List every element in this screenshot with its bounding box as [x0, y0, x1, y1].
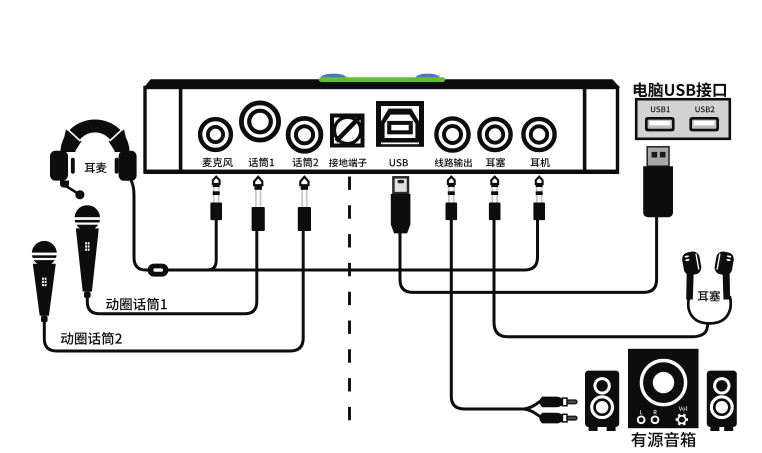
sound card rear panel body [145, 88, 618, 172]
plug for 线路输出 [448, 177, 455, 184]
label 电脑USB接口 [634, 82, 726, 97]
earbud right [714, 250, 735, 276]
dashed divider line [348, 177, 351, 435]
jack 线路输出 (line out) [436, 118, 468, 150]
wire RCA branch upper [524, 400, 543, 410]
label 动圈话筒1 [106, 298, 167, 311]
wire headset cable to remote [131, 180, 150, 270]
label 耳机 [530, 158, 549, 167]
wire line out to RCA split [451, 218, 524, 409]
panel top lid [144, 79, 620, 87]
wire mic1 to 话筒1 plug [87, 229, 256, 314]
label 耳塞 [486, 158, 505, 167]
earbud cable loop [688, 296, 730, 323]
USB1 port [645, 117, 675, 131]
blue indicator dome left [321, 74, 347, 78]
plug for 耳机 [536, 177, 543, 184]
headset right ear cup [119, 151, 137, 181]
label 麦克风 [202, 158, 232, 168]
blue indicator dome right [416, 74, 441, 78]
headset right ear pad bar [115, 158, 119, 174]
label 接地端子 [329, 158, 367, 167]
panel bottom edge [144, 170, 619, 174]
inline remote on headset cable [148, 264, 169, 277]
ground terminal 接地端子 [332, 116, 363, 146]
panel right divider [583, 88, 587, 170]
label USB [390, 159, 408, 166]
label USB2 [695, 106, 714, 112]
speaker right satellite [707, 371, 737, 427]
plug for 话筒1 [254, 177, 262, 185]
headset boom arm and mic [60, 181, 69, 188]
label 线路输出 [435, 158, 472, 167]
plug for 麦克风 (headset mic plug) [213, 177, 220, 184]
USB-A male connector [647, 147, 669, 166]
USB2 port [689, 117, 719, 131]
label 话筒1 [249, 157, 275, 167]
headset left ear cup [50, 151, 68, 181]
jack 话筒1 (mic 1) [241, 103, 278, 140]
headset headband [61, 120, 130, 152]
wire USB mini plug to computer USB [400, 215, 657, 292]
USB mini plug [393, 177, 408, 193]
plug for 耳塞 [491, 177, 498, 184]
headset left ear pad bar [71, 158, 75, 174]
wire mic2 to 话筒2 plug [44, 229, 303, 351]
speaker left satellite [585, 371, 619, 427]
jack 耳机 (headphone) [523, 119, 554, 150]
panel left divider [179, 88, 183, 170]
jack 话筒2 (mic 2) [288, 118, 321, 151]
green strip on lid [319, 77, 445, 82]
label 话筒2 [293, 157, 319, 167]
label 动圈话筒2 [61, 332, 122, 345]
plug for 话筒2 [300, 177, 308, 185]
RCA plug upper [539, 397, 562, 408]
RCA plug lower [539, 413, 562, 424]
USB-B jack [376, 101, 424, 147]
wire remote to mic jack plug and headphone plug (main horizontal) [160, 220, 538, 270]
jack 耳塞 (earbud) [479, 119, 510, 150]
label 耳塞 (earbuds) [698, 291, 720, 302]
label 耳麦 [85, 162, 107, 173]
dynamic microphone 2 [32, 241, 57, 266]
label USB1 [651, 106, 670, 112]
wire branch up to 麦克风 plug [207, 218, 216, 270]
dynamic microphone 1 [75, 205, 101, 231]
wire RCA branch lower [524, 409, 543, 419]
wire 耳塞 jack to earbuds [494, 218, 709, 337]
computer USB hub box [636, 99, 730, 139]
jack 麦克风 (microphone) [200, 119, 231, 150]
speaker subwoofer [628, 349, 699, 428]
earbud left [681, 250, 702, 276]
label 有源音箱 [631, 432, 695, 447]
